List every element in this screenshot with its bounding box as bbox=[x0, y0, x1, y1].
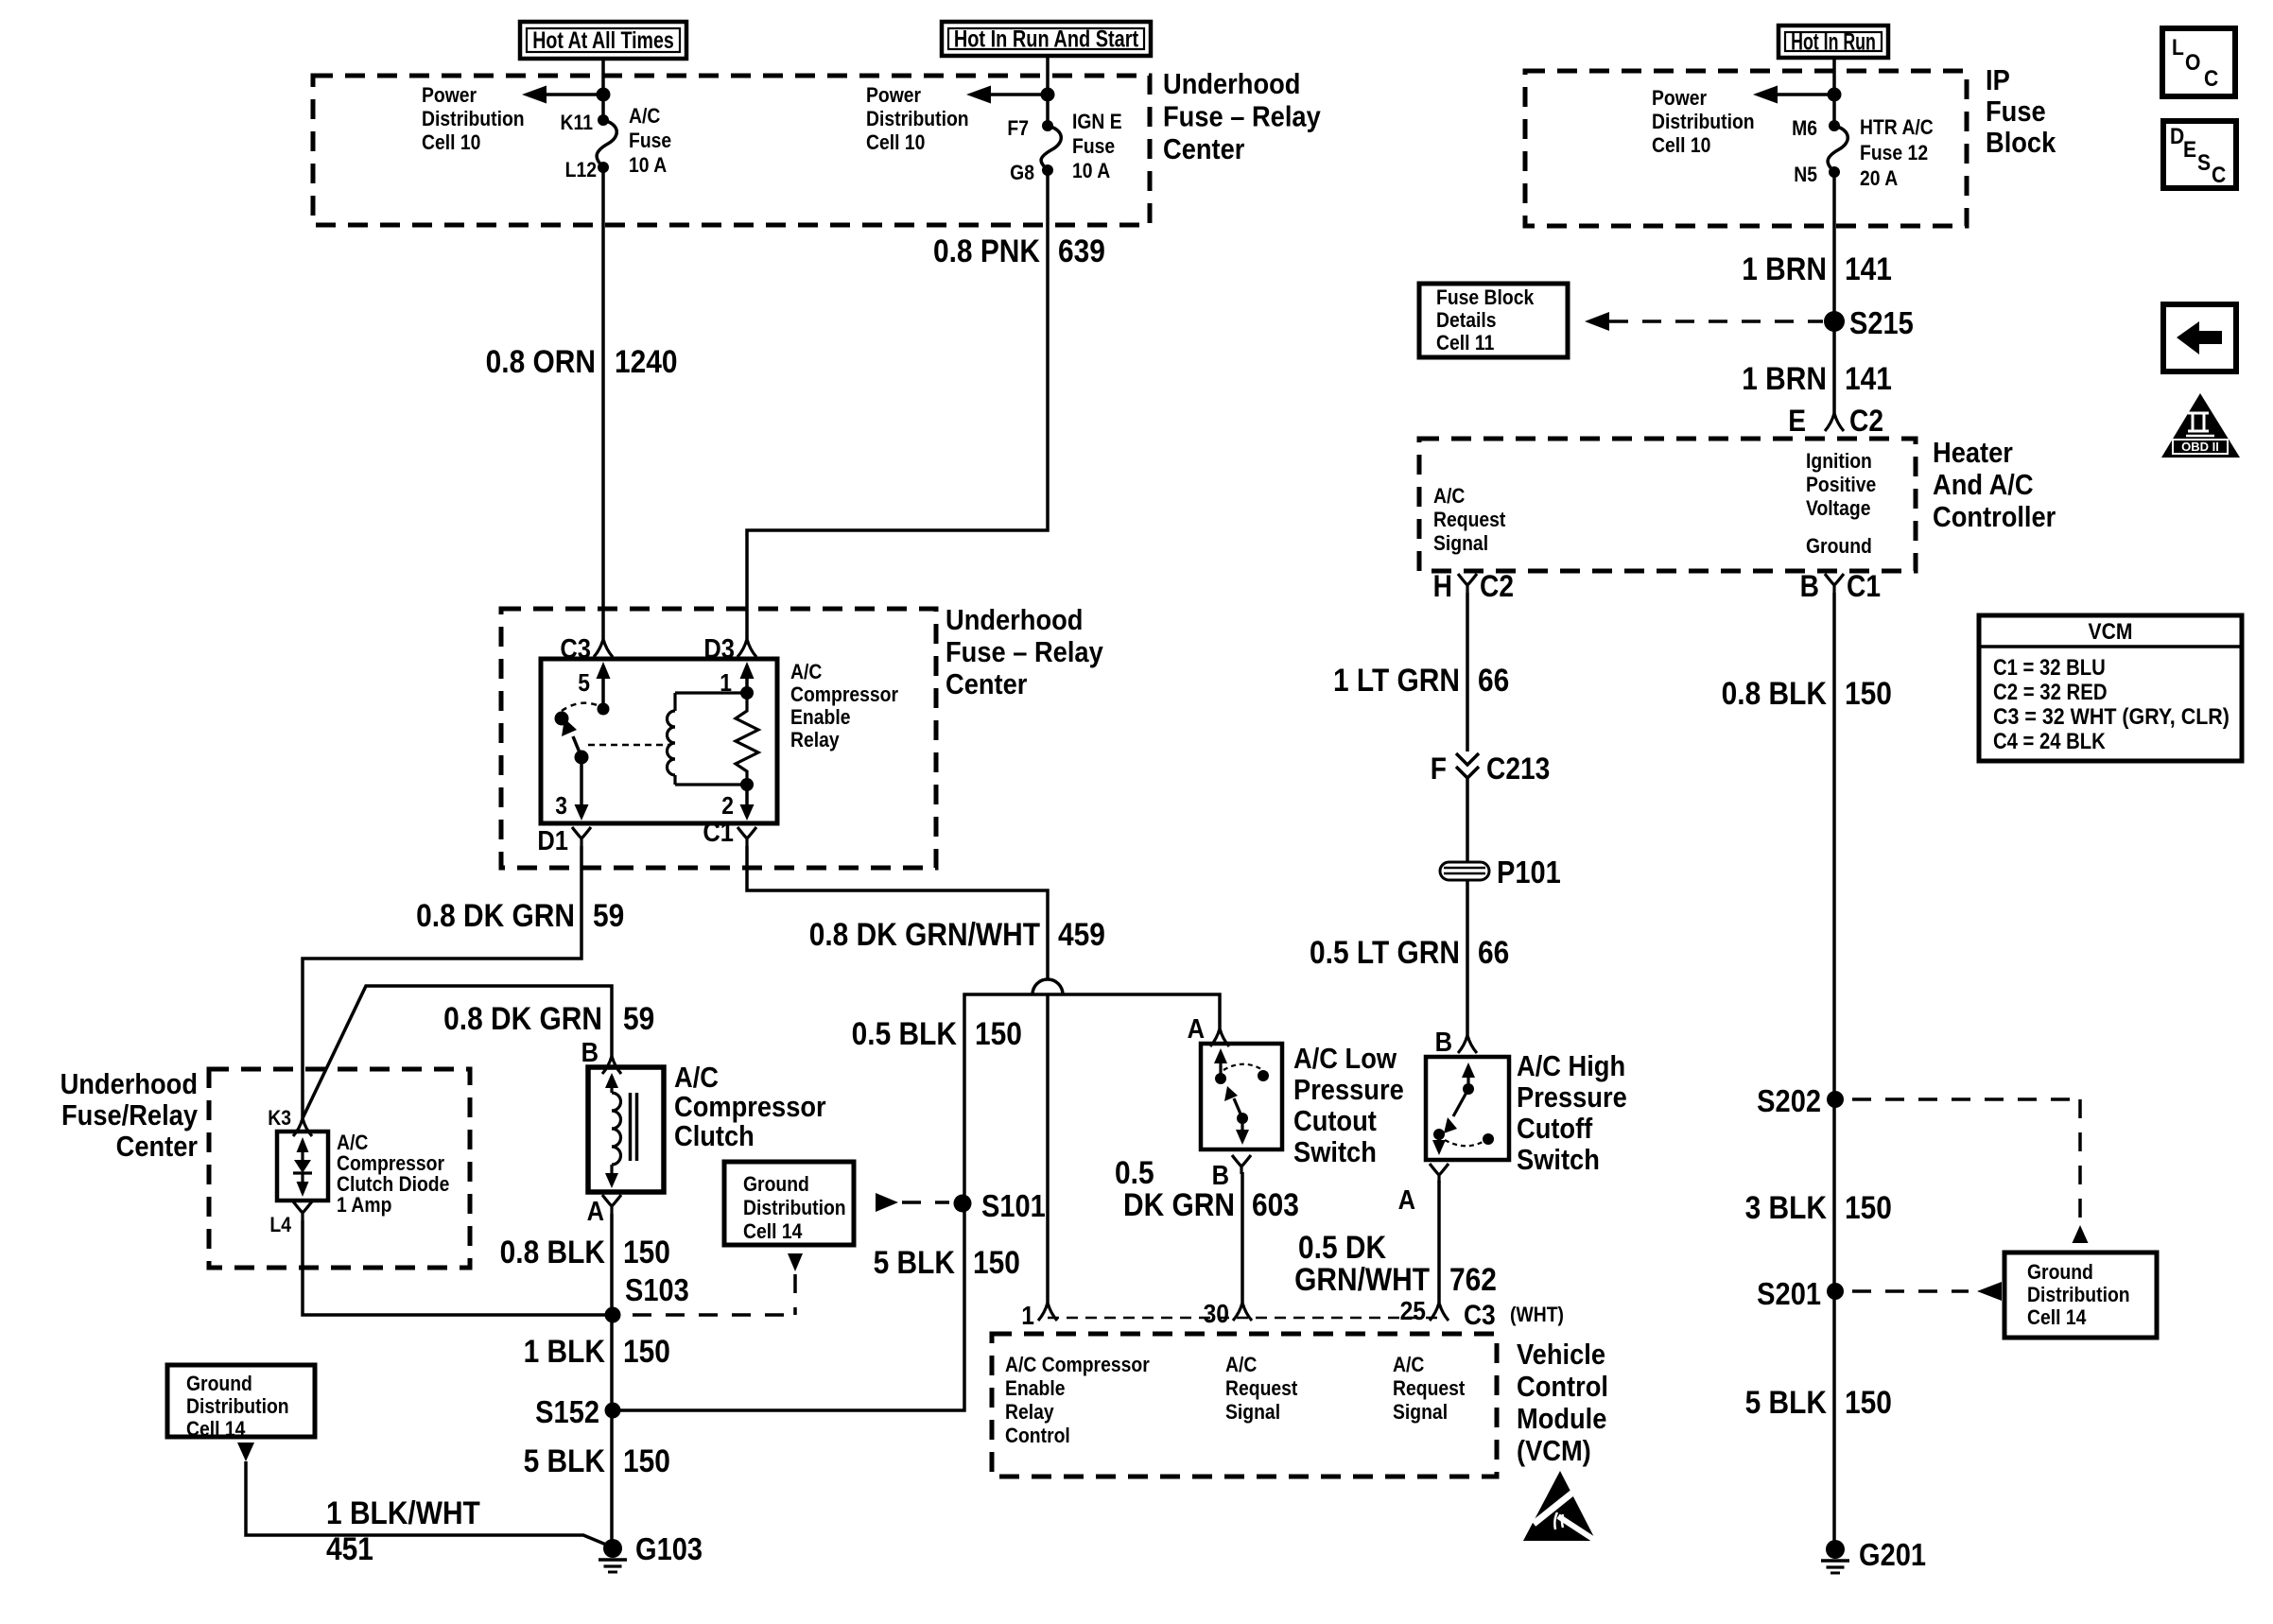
svg-text:141: 141 bbox=[1845, 360, 1892, 396]
wire 0.5 DK GRN/WHT 762 bbox=[1437, 1181, 1441, 1303]
svg-text:3 BLK: 3 BLK bbox=[1745, 1189, 1827, 1225]
ground G201 bbox=[1826, 1540, 1845, 1559]
svg-text:Signal: Signal bbox=[1225, 1401, 1280, 1424]
connector K3 fork bbox=[293, 1118, 312, 1136]
svg-text:C1: C1 bbox=[1847, 570, 1881, 603]
svg-text:C2 = 32 RED: C2 = 32 RED bbox=[1993, 680, 2108, 705]
ground distribution cell 14 box (C) bbox=[2004, 1253, 2157, 1338]
junction dot fuse2 bbox=[1041, 88, 1055, 102]
ip fuse block dashed box bbox=[1525, 71, 1967, 226]
dashed ref S201 bbox=[1852, 1289, 1969, 1293]
svg-text:Distribution: Distribution bbox=[186, 1395, 289, 1418]
svg-text:And A/C: And A/C bbox=[1933, 469, 2034, 501]
arrow to power distribution 3 bbox=[1770, 93, 1834, 96]
high switch common lead bbox=[1466, 1076, 1469, 1089]
svg-text:F7: F7 bbox=[1007, 117, 1029, 140]
svg-text:1 Amp: 1 Amp bbox=[337, 1194, 391, 1217]
svg-text:D: D bbox=[2170, 124, 2184, 149]
relay dashed link to coil bbox=[588, 744, 671, 747]
wire fuse2 feed bbox=[1046, 56, 1050, 126]
svg-text:762: 762 bbox=[1449, 1261, 1497, 1297]
svg-text:150: 150 bbox=[973, 1244, 1020, 1280]
VCM pin 30 fork bbox=[1233, 1303, 1252, 1321]
svg-text:Fuse: Fuse bbox=[1986, 95, 2046, 128]
dashed ref S215 to fuse block details bbox=[1585, 312, 1609, 331]
connector H C2 fork bbox=[1458, 574, 1477, 593]
connector L4 fork bbox=[293, 1201, 312, 1220]
svg-text:Hot In Run And Start: Hot In Run And Start bbox=[954, 26, 1138, 52]
svg-text:Fuse – Relay: Fuse – Relay bbox=[1163, 101, 1321, 133]
ESD symbol bbox=[1523, 1471, 1596, 1541]
ground distribution cell 14 box (B) bbox=[167, 1365, 315, 1437]
connector A fork (high switch) bbox=[1430, 1164, 1449, 1183]
svg-text:150: 150 bbox=[975, 1015, 1022, 1051]
svg-text:S202: S202 bbox=[1757, 1083, 1821, 1118]
svg-text:Fuse: Fuse bbox=[1072, 135, 1115, 158]
svg-text:C: C bbox=[2204, 66, 2218, 92]
arrow to power distribution 1 bbox=[539, 93, 603, 96]
svg-text:Enable: Enable bbox=[1005, 1377, 1065, 1400]
high switch dashed arc bbox=[1445, 1140, 1484, 1146]
high switch bottom lead bbox=[1437, 1134, 1440, 1144]
svg-text:M6: M6 bbox=[1792, 117, 1817, 140]
VCM pin 1 fork bbox=[1038, 1303, 1057, 1321]
svg-text:Details: Details bbox=[1436, 309, 1496, 332]
svg-text:Clutch: Clutch bbox=[674, 1120, 755, 1152]
svg-text:59: 59 bbox=[593, 897, 624, 933]
svg-text:Power: Power bbox=[422, 84, 477, 107]
fuse block details box bbox=[1419, 284, 1568, 357]
clutch coil bbox=[610, 1076, 613, 1093]
splice S201 bbox=[1827, 1283, 1844, 1300]
svg-text:S101: S101 bbox=[981, 1188, 1046, 1223]
fuse F3 HTR A/C Fuse 12 20A bbox=[1829, 120, 1840, 131]
svg-text:A/C: A/C bbox=[790, 661, 822, 683]
connector C3 fork bbox=[594, 639, 613, 657]
svg-text:25: 25 bbox=[1400, 1296, 1426, 1326]
grommet P101 bbox=[1440, 862, 1489, 880]
svg-text:L4: L4 bbox=[269, 1214, 291, 1236]
wire 0.5 BLK 150 (S152 to low switch A) bbox=[613, 994, 1220, 1410]
svg-text:0.5 LT GRN: 0.5 LT GRN bbox=[1310, 934, 1460, 970]
OBD II symbol bbox=[2161, 393, 2240, 458]
svg-text:639: 639 bbox=[1058, 233, 1105, 268]
svg-text:0.8 ORN: 0.8 ORN bbox=[486, 343, 596, 379]
svg-text:Distribution: Distribution bbox=[866, 108, 969, 130]
clutch plates bbox=[629, 1093, 633, 1161]
svg-text:A/C: A/C bbox=[1225, 1354, 1257, 1376]
svg-text:C2: C2 bbox=[1480, 570, 1514, 603]
svg-text:Hot In Run: Hot In Run bbox=[1791, 28, 1876, 55]
underhood fuse/relay center dashed box (diode) bbox=[209, 1069, 470, 1268]
svg-text:G8: G8 bbox=[1010, 162, 1034, 184]
svg-text:Relay: Relay bbox=[1005, 1401, 1054, 1424]
svg-text:VCM: VCM bbox=[2089, 619, 2133, 645]
svg-text:10 A: 10 A bbox=[629, 154, 667, 177]
svg-text:P101: P101 bbox=[1497, 855, 1561, 890]
svg-text:Center: Center bbox=[116, 1131, 198, 1163]
svg-text:G201: G201 bbox=[1859, 1537, 1926, 1572]
relay coil bbox=[673, 693, 676, 711]
connector D3 fork bbox=[737, 639, 756, 657]
svg-text:Cell 10: Cell 10 bbox=[1652, 134, 1710, 157]
splice S152 bbox=[605, 1403, 621, 1419]
svg-text:C4 = 24 BLK: C4 = 24 BLK bbox=[1993, 729, 2106, 754]
diode D1 A/C compressor clutch diode box bbox=[277, 1132, 328, 1201]
arrow to power distribution 2 bbox=[983, 93, 1048, 96]
junction dot fuse3 bbox=[1828, 88, 1842, 102]
svg-text:Controller: Controller bbox=[1933, 501, 2056, 533]
svg-text:Request: Request bbox=[1393, 1377, 1465, 1400]
back arrow symbol bbox=[2163, 304, 2236, 371]
svg-text:Cell 10: Cell 10 bbox=[422, 131, 480, 154]
VCM connector table bbox=[1979, 615, 2242, 761]
wire fuse3 feed bbox=[1832, 58, 1836, 126]
svg-text:Fuse 12: Fuse 12 bbox=[1860, 142, 1928, 164]
svg-text:C1 = 32 BLU: C1 = 32 BLU bbox=[1993, 655, 2106, 681]
svg-text:Heater: Heater bbox=[1933, 437, 2013, 469]
svg-text:Control: Control bbox=[1005, 1425, 1070, 1447]
header Hot In Run bbox=[1778, 26, 1888, 58]
svg-text:Power: Power bbox=[1652, 87, 1707, 110]
svg-text:1: 1 bbox=[1021, 1301, 1034, 1331]
svg-text:Fuse Block: Fuse Block bbox=[1436, 286, 1535, 309]
svg-text:Fuse/Relay: Fuse/Relay bbox=[61, 1099, 199, 1132]
svg-text:A/C: A/C bbox=[1433, 485, 1465, 508]
svg-text:Compressor: Compressor bbox=[674, 1091, 826, 1123]
svg-text:66: 66 bbox=[1478, 934, 1509, 970]
connector E C2 fork bbox=[1825, 413, 1844, 431]
svg-text:603: 603 bbox=[1252, 1186, 1299, 1222]
VCM pin 25 fork bbox=[1430, 1303, 1449, 1321]
svg-text:Compressor: Compressor bbox=[790, 683, 898, 706]
wire 0.5 DK GRN 603 bbox=[1241, 1172, 1244, 1303]
vehicle control module dashed box bbox=[992, 1334, 1497, 1477]
svg-text:S201: S201 bbox=[1757, 1276, 1821, 1311]
low switch bottom lead bbox=[1241, 1118, 1243, 1132]
svg-text:Signal: Signal bbox=[1433, 532, 1488, 555]
svg-text:B: B bbox=[1435, 1026, 1452, 1057]
high switch bottom dot bbox=[1433, 1129, 1445, 1140]
relay switch pivot dot bbox=[555, 712, 569, 726]
svg-text:IGN E: IGN E bbox=[1072, 111, 1122, 133]
svg-text:1 BLK: 1 BLK bbox=[524, 1333, 605, 1369]
svg-text:HTR A/C: HTR A/C bbox=[1860, 116, 1934, 139]
svg-text:E: E bbox=[1788, 405, 1806, 438]
svg-text:3: 3 bbox=[555, 793, 567, 821]
svg-text:0.8 DK GRN: 0.8 DK GRN bbox=[443, 1000, 602, 1036]
connector D1 fork bbox=[572, 827, 591, 846]
switch box A/C High Pressure Cutoff bbox=[1426, 1057, 1509, 1160]
arrow from box A to S101 bbox=[876, 1193, 898, 1212]
svg-text:S215: S215 bbox=[1849, 305, 1914, 340]
svg-text:0.5 BLK: 0.5 BLK bbox=[852, 1015, 957, 1051]
relay pin 1 lead bbox=[745, 677, 749, 693]
svg-text:1 BLK/WHT: 1 BLK/WHT bbox=[326, 1494, 480, 1530]
svg-text:A/C: A/C bbox=[337, 1132, 368, 1154]
svg-text:Underhood: Underhood bbox=[946, 604, 1083, 636]
svg-text:A/C: A/C bbox=[674, 1062, 719, 1094]
svg-text:N5: N5 bbox=[1794, 164, 1817, 186]
svg-text:Ignition: Ignition bbox=[1806, 450, 1872, 473]
low switch armature bbox=[1234, 1098, 1242, 1118]
svg-text:C213: C213 bbox=[1486, 752, 1550, 786]
svg-text:Switch: Switch bbox=[1517, 1144, 1600, 1176]
svg-text:Relay: Relay bbox=[790, 729, 840, 752]
ground G103 bbox=[603, 1539, 622, 1558]
svg-text:C1: C1 bbox=[703, 816, 734, 847]
svg-text:S152: S152 bbox=[535, 1394, 599, 1429]
svg-text:C: C bbox=[2212, 163, 2226, 188]
svg-text:Block: Block bbox=[1986, 127, 2056, 159]
svg-text:Voltage: Voltage bbox=[1806, 497, 1870, 520]
svg-text:0.8 DK GRN: 0.8 DK GRN bbox=[416, 897, 575, 933]
ground distribution cell 14 box (A) bbox=[724, 1162, 854, 1245]
svg-text:Positive: Positive bbox=[1806, 474, 1876, 496]
svg-text:Cell 10: Cell 10 bbox=[866, 131, 925, 154]
svg-text:Ground: Ground bbox=[1806, 535, 1872, 558]
wire 0.8 ORN 1240 (fuse1 to relay C3) bbox=[601, 167, 605, 639]
svg-text:5: 5 bbox=[578, 670, 590, 698]
svg-text:E: E bbox=[2183, 137, 2196, 163]
svg-text:Center: Center bbox=[946, 668, 1027, 700]
svg-text:Center: Center bbox=[1163, 133, 1244, 165]
relay pin 2 lead bbox=[745, 785, 749, 805]
VCM connector line bbox=[1048, 1317, 1445, 1320]
svg-text:S: S bbox=[2197, 150, 2211, 176]
svg-text:F: F bbox=[1431, 752, 1447, 786]
relay switch dashed arc bbox=[562, 703, 603, 711]
svg-text:Signal: Signal bbox=[1393, 1401, 1448, 1424]
svg-text:Underhood: Underhood bbox=[1163, 68, 1300, 100]
svg-text:Request: Request bbox=[1225, 1377, 1297, 1400]
svg-text:OBD II: OBD II bbox=[2181, 440, 2219, 454]
relay resistor bbox=[736, 693, 758, 785]
svg-text:59: 59 bbox=[623, 1000, 654, 1036]
svg-text:141: 141 bbox=[1845, 251, 1892, 286]
svg-text:10 A: 10 A bbox=[1072, 160, 1110, 182]
svg-text:B: B bbox=[1800, 570, 1819, 603]
diode symbol bbox=[294, 1160, 311, 1173]
svg-text:1240: 1240 bbox=[615, 343, 678, 379]
svg-text:D1: D1 bbox=[537, 824, 568, 855]
relay armature dot bbox=[575, 751, 589, 765]
svg-text:Distribution: Distribution bbox=[422, 108, 525, 130]
clutch box A/C Compressor Clutch bbox=[588, 1067, 664, 1192]
splice S103 bbox=[605, 1307, 621, 1323]
svg-text:(VCM): (VCM) bbox=[1517, 1435, 1591, 1467]
svg-text:L12: L12 bbox=[565, 159, 597, 181]
underhood fuse-relay center dashed box (top) bbox=[313, 76, 1150, 225]
wire 0.8 DK GRN 59 (relay D1 to K3) bbox=[303, 846, 581, 1118]
connector B C1 fork bbox=[1825, 574, 1844, 593]
svg-text:459: 459 bbox=[1058, 916, 1105, 952]
svg-text:0.8 PNK: 0.8 PNK bbox=[933, 233, 1040, 268]
svg-text:G103: G103 bbox=[635, 1531, 703, 1566]
relay armature with arrow bbox=[573, 736, 581, 757]
splice S202 bbox=[1827, 1091, 1844, 1108]
svg-text:Ground: Ground bbox=[743, 1173, 809, 1196]
header Hot At All Times bbox=[520, 22, 686, 59]
svg-text:L: L bbox=[2172, 35, 2184, 60]
svg-text:1: 1 bbox=[720, 670, 732, 698]
connector B fork (low switch) bbox=[1232, 1155, 1251, 1174]
svg-text:5 BLK: 5 BLK bbox=[524, 1443, 605, 1478]
fuse F1 A/C Fuse 10A bbox=[598, 114, 609, 126]
svg-text:0.8 BLK: 0.8 BLK bbox=[500, 1234, 605, 1270]
connector A fork (clutch) bbox=[602, 1195, 621, 1214]
connector C1 fork bbox=[737, 827, 756, 846]
svg-text:Fuse: Fuse bbox=[629, 130, 671, 152]
svg-text:150: 150 bbox=[623, 1443, 670, 1478]
connector A fork (low switch) bbox=[1210, 1028, 1229, 1046]
svg-text:Cell 11: Cell 11 bbox=[1436, 332, 1494, 354]
wire fuse1 feed bbox=[601, 59, 605, 120]
relay pin 3 lead bbox=[580, 757, 583, 805]
svg-text:K11: K11 bbox=[561, 112, 593, 134]
svg-text:0.5: 0.5 bbox=[1115, 1154, 1154, 1190]
connector C213 bbox=[1456, 753, 1479, 778]
svg-text:150: 150 bbox=[1845, 1384, 1892, 1420]
svg-text:Control: Control bbox=[1517, 1371, 1608, 1403]
wire 0.8 DK GRN 59 branch (clutch B to K3) bbox=[303, 986, 612, 1118]
switch box A/C Low Pressure Cutout bbox=[1201, 1044, 1282, 1149]
svg-text:Distribution: Distribution bbox=[2027, 1284, 2130, 1306]
LOC symbol bbox=[2162, 28, 2235, 96]
svg-text:Ground: Ground bbox=[186, 1373, 252, 1395]
svg-text:0.8 DK GRN/WHT: 0.8 DK GRN/WHT bbox=[809, 916, 1041, 952]
svg-text:Request: Request bbox=[1433, 509, 1505, 531]
fuse F2 IGN E Fuse 10A bbox=[1042, 120, 1053, 131]
wire 0.8 DK GRN/WHT 459 (C1 to VCM pin1) bbox=[747, 846, 1048, 980]
svg-text:H: H bbox=[1433, 570, 1452, 603]
diode lead arrows bbox=[301, 1144, 304, 1160]
svg-text:A/C: A/C bbox=[629, 105, 660, 128]
svg-text:Pressure: Pressure bbox=[1517, 1081, 1627, 1114]
svg-text:Compressor: Compressor bbox=[337, 1152, 444, 1175]
svg-text:C2: C2 bbox=[1849, 405, 1883, 438]
dashed ref S202 bbox=[1852, 1097, 2080, 1101]
wire L4 to S103 bbox=[303, 1220, 605, 1315]
svg-text:O: O bbox=[2185, 50, 2200, 76]
svg-text:451: 451 bbox=[326, 1530, 373, 1566]
svg-text:Underhood: Underhood bbox=[61, 1068, 198, 1100]
svg-text:B: B bbox=[581, 1036, 599, 1067]
low switch common lead bbox=[1219, 1063, 1222, 1079]
svg-text:Cutout: Cutout bbox=[1293, 1105, 1377, 1137]
svg-text:A: A bbox=[587, 1195, 604, 1226]
svg-text:0.5 DK: 0.5 DK bbox=[1298, 1229, 1386, 1265]
wire below C213 bbox=[1466, 778, 1469, 862]
relay pin 5 lead bbox=[601, 677, 605, 707]
connector B fork (high switch) bbox=[1458, 1035, 1477, 1053]
high switch armature bbox=[1453, 1089, 1468, 1116]
low switch dashed arc bbox=[1223, 1064, 1261, 1070]
svg-text:Ground: Ground bbox=[2027, 1261, 2093, 1284]
heater and a/c controller dashed box bbox=[1419, 439, 1916, 571]
svg-text:IP: IP bbox=[1986, 64, 2010, 96]
svg-text:30: 30 bbox=[1204, 1299, 1229, 1329]
svg-text:DK GRN: DK GRN bbox=[1123, 1186, 1235, 1222]
svg-text:Clutch Diode: Clutch Diode bbox=[337, 1173, 449, 1196]
dashed ref box A to S103 bbox=[788, 1253, 803, 1271]
splice S101 bbox=[954, 1195, 972, 1213]
svg-text:66: 66 bbox=[1478, 662, 1509, 698]
svg-text:5 BLK: 5 BLK bbox=[1745, 1384, 1827, 1420]
wire 0.5 LT GRN 66 bbox=[1466, 880, 1469, 1035]
svg-text:S103: S103 bbox=[625, 1272, 689, 1307]
DESC symbol bbox=[2163, 121, 2236, 188]
svg-text:GRN/WHT: GRN/WHT bbox=[1294, 1261, 1430, 1297]
svg-text:1 LT GRN: 1 LT GRN bbox=[1333, 662, 1460, 698]
relay U1 A/C Compressor Enable Relay box bbox=[541, 659, 777, 823]
junction dot fuse1 bbox=[597, 88, 611, 102]
svg-text:C3 = 32 WHT (GRY, CLR): C3 = 32 WHT (GRY, CLR) bbox=[1993, 704, 2230, 730]
svg-text:0.8 BLK: 0.8 BLK bbox=[1722, 675, 1827, 711]
svg-text:Cell 14: Cell 14 bbox=[743, 1220, 803, 1243]
splice S215 bbox=[1824, 311, 1845, 332]
high switch NO contact dot bbox=[1483, 1133, 1494, 1145]
svg-text:Cell 14: Cell 14 bbox=[186, 1418, 246, 1441]
svg-text:5 BLK: 5 BLK bbox=[874, 1244, 955, 1280]
header Hot In Run And Start bbox=[942, 22, 1151, 56]
svg-text:C3: C3 bbox=[1464, 1298, 1496, 1330]
wire 1 BRN 141 (fuse3 to heater) bbox=[1832, 172, 1836, 413]
svg-text:Distribution: Distribution bbox=[743, 1197, 846, 1219]
wire 0.8 PNK 639 (fuse2 to relay D3) bbox=[747, 170, 1048, 639]
arrow below box B bbox=[237, 1443, 254, 1461]
svg-text:1 BRN: 1 BRN bbox=[1742, 251, 1827, 286]
svg-text:A: A bbox=[1188, 1012, 1205, 1044]
svg-text:Switch: Switch bbox=[1293, 1136, 1377, 1168]
svg-text:Distribution: Distribution bbox=[1652, 111, 1755, 133]
svg-text:Cell 14: Cell 14 bbox=[2027, 1306, 2087, 1329]
low switch NC contact dot bbox=[1258, 1070, 1269, 1081]
wire 1 BLK/WHT 451 bbox=[246, 1461, 606, 1545]
wire 0.8 BLK 150 (clutch A to G103) bbox=[610, 1214, 614, 1548]
svg-text:Fuse – Relay: Fuse – Relay bbox=[946, 636, 1103, 668]
connector B fork (clutch) bbox=[602, 1056, 621, 1074]
svg-text:Hot At All Times: Hot At All Times bbox=[532, 27, 674, 54]
svg-text:20 A: 20 A bbox=[1860, 167, 1898, 190]
svg-text:150: 150 bbox=[623, 1333, 670, 1369]
svg-text:Cutoff: Cutoff bbox=[1517, 1113, 1593, 1145]
svg-text:Module: Module bbox=[1517, 1403, 1606, 1435]
svg-text:K3: K3 bbox=[268, 1107, 291, 1130]
svg-text:A/C Low: A/C Low bbox=[1293, 1043, 1397, 1075]
wire 1 LT GRN 66 bbox=[1466, 593, 1469, 752]
underhood fuse-relay center dashed box (middle) bbox=[501, 609, 936, 868]
svg-text:A/C Compressor: A/C Compressor bbox=[1005, 1354, 1150, 1376]
svg-text:A/C: A/C bbox=[1393, 1354, 1424, 1376]
svg-text:Enable: Enable bbox=[790, 706, 850, 729]
svg-text:150: 150 bbox=[623, 1234, 670, 1270]
svg-text:A/C High: A/C High bbox=[1517, 1050, 1625, 1082]
svg-text:Vehicle: Vehicle bbox=[1517, 1339, 1605, 1371]
svg-text:150: 150 bbox=[1845, 1189, 1892, 1225]
svg-text:Pressure: Pressure bbox=[1293, 1074, 1404, 1106]
svg-text:(WHT): (WHT) bbox=[1510, 1304, 1564, 1326]
svg-text:Power: Power bbox=[866, 84, 921, 107]
svg-text:1 BRN: 1 BRN bbox=[1742, 360, 1827, 396]
svg-text:150: 150 bbox=[1845, 675, 1892, 711]
wire 0.8 BLK 150 (heater B to G201) bbox=[1832, 593, 1836, 1549]
svg-text:A: A bbox=[1398, 1183, 1415, 1215]
